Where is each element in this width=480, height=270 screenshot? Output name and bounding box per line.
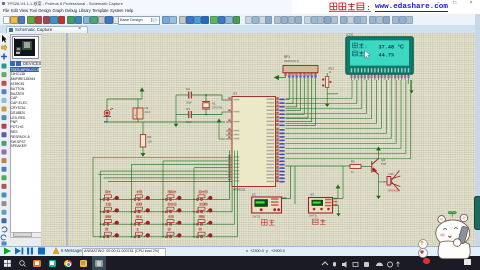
button keypad row1 col3 bbox=[166, 195, 182, 201]
button keypad row3 col4 bbox=[197, 220, 213, 226]
wire net to U2 data bbox=[294, 166, 296, 204]
button keypad row2 col3 bbox=[166, 207, 182, 213]
taskbar bbox=[0, 256, 480, 270]
svg-text:U3: U3 bbox=[310, 193, 314, 197]
label humidity U3 bbox=[313, 219, 319, 225]
svg-text:10k: 10k bbox=[148, 140, 153, 144]
ground under R1 bbox=[141, 150, 145, 156]
wire RV1 top bbox=[326, 73, 328, 77]
svg-text:DHT11: DHT11 bbox=[309, 214, 318, 218]
ground Q4 emitter bbox=[377, 193, 380, 199]
svg-text:22uF: 22uF bbox=[145, 110, 151, 114]
button keypad row1 col2 bbox=[134, 195, 150, 201]
wire P3 net to R2 bbox=[286, 165, 351, 167]
LCD text line1 temperature bbox=[353, 43, 358, 48]
svg-text:PNP: PNP bbox=[381, 162, 387, 166]
button keypad row3 col1 bbox=[103, 220, 119, 226]
mouse cursor bbox=[365, 51, 370, 59]
wire bus RP1 to P0 bbox=[288, 78, 290, 100]
schematic canvas bbox=[41, 33, 475, 246]
MCU U1 AT89C51 bbox=[226, 92, 285, 192]
button keypad row4 col2 bbox=[134, 232, 150, 238]
power arrow U3 bbox=[336, 185, 340, 191]
button keypad row4 col3 bbox=[166, 232, 182, 238]
wire RV1 stub bbox=[327, 93, 338, 95]
svg-text:°C: °C bbox=[398, 44, 404, 50]
teal pill overlay bbox=[474, 196, 480, 230]
svg-text:SPEAKER: SPEAKER bbox=[388, 190, 400, 193]
button keypad row2 col2 bbox=[134, 207, 150, 213]
wire xtal rail1 bbox=[176, 94, 188, 96]
wire bbox=[106, 99, 108, 110]
overview window bbox=[10, 34, 42, 62]
svg-text:R1: R1 bbox=[148, 135, 152, 139]
ground LCD backlight bbox=[411, 80, 413, 88]
svg-text:30pF: 30pF bbox=[186, 101, 192, 105]
button keypad row1 col1 bbox=[103, 195, 119, 201]
panel h scrollbar bbox=[10, 232, 42, 239]
svg-text:C3: C3 bbox=[186, 107, 190, 111]
svg-text:1k: 1k bbox=[351, 170, 354, 174]
wire xtal rail2 bbox=[176, 114, 188, 116]
ground RV1 bbox=[325, 101, 328, 107]
button keypad row1 col4 bbox=[197, 195, 213, 201]
button keypad row3 col3 bbox=[166, 220, 182, 226]
svg-text:C2: C2 bbox=[186, 87, 190, 91]
wire keypad column drops bbox=[92, 158, 94, 237]
left panel bbox=[8, 33, 41, 246]
sheet border line bbox=[66, 33, 68, 246]
svg-text:RV1: RV1 bbox=[329, 67, 335, 71]
menu bar bbox=[0, 7, 480, 14]
svg-text:U1: U1 bbox=[233, 92, 237, 96]
button keypad row3 col2 bbox=[134, 220, 150, 226]
svg-text:RP1: RP1 bbox=[284, 55, 290, 59]
wire bbox=[192, 94, 223, 96]
wire RV1 bottom to ground bbox=[326, 88, 328, 102]
wire U3 data bbox=[342, 166, 344, 199]
keypad row wires bbox=[101, 198, 230, 200]
toolbar row bbox=[0, 14, 480, 26]
MCU right pin callout labels bbox=[276, 97, 284, 182]
wire bus LCD staircase bbox=[286, 80, 411, 159]
tab bar bbox=[0, 25, 480, 35]
speaker LS1 bbox=[387, 171, 400, 192]
crystal X1 bbox=[205, 95, 207, 102]
wire VCC rail reset bbox=[107, 98, 142, 100]
sensor U3 DHT11 humidity bbox=[309, 193, 338, 214]
svg-text:+: + bbox=[384, 179, 386, 183]
svg-text:30pF: 30pF bbox=[186, 120, 192, 124]
svg-text:X1: X1 bbox=[212, 102, 216, 106]
LCD display AMPIRE128X64 bbox=[346, 33, 414, 75]
wire Q4 emitter bbox=[378, 175, 380, 182]
keypad junction dots bbox=[100, 199, 195, 238]
wire bbox=[192, 114, 223, 116]
resistor pack RP1 RESPACK-8 bbox=[283, 55, 318, 78]
wire U2 data bbox=[282, 198, 291, 200]
capacitor C2 bbox=[189, 92, 192, 99]
wire U3 gnd bbox=[333, 205, 339, 207]
wire bbox=[106, 117, 108, 123]
button keypad row4 col1 bbox=[103, 232, 119, 238]
button keypad row4 col4 bbox=[197, 232, 213, 238]
svg-text:44.7%: 44.7% bbox=[379, 53, 395, 59]
potentiometer RV1 bbox=[322, 67, 334, 88]
wire bbox=[205, 109, 207, 115]
white banner top right bbox=[292, 0, 480, 14]
right window border bbox=[475, 14, 480, 246]
transistor Q4 PNP bbox=[372, 159, 379, 175]
resistor R1 bbox=[142, 122, 144, 135]
float buttons bbox=[418, 239, 428, 249]
wire R2 to Q4 base bbox=[361, 166, 372, 168]
wire U3 vdd bbox=[333, 198, 344, 200]
capacitor C3 bbox=[189, 111, 192, 118]
wire cap ground rail bbox=[175, 95, 177, 121]
wire XTAL1 to MCU bbox=[221, 95, 223, 100]
ground crystal caps bbox=[174, 121, 177, 127]
button RESET bbox=[104, 109, 114, 117]
ground U3 bbox=[337, 211, 340, 216]
resistor R2 bbox=[350, 165, 361, 169]
sensor U2 DHT11 temperature bbox=[252, 193, 287, 214]
combo box "Base Design" bbox=[118, 16, 160, 25]
svg-text:LS1: LS1 bbox=[389, 172, 395, 176]
LCD text line2 humidity bbox=[353, 51, 358, 56]
keypad right bundle bbox=[229, 151, 231, 200]
svg-text:37.48: 37.48 bbox=[379, 45, 395, 51]
wire bus MCU P1 to keypad bbox=[93, 158, 226, 182]
devices list bbox=[10, 67, 42, 234]
svg-text:DHT11: DHT11 bbox=[253, 215, 262, 219]
svg-text:Q4: Q4 bbox=[381, 158, 385, 162]
svg-text:U2: U2 bbox=[252, 193, 256, 197]
svg-text:R2: R2 bbox=[351, 160, 355, 164]
svg-text:C1: C1 bbox=[145, 106, 149, 110]
left vertical toolbar bbox=[0, 33, 9, 246]
svg-text:LCD1: LCD1 bbox=[346, 33, 354, 37]
wire LCD vss bbox=[407, 80, 409, 84]
title bar bbox=[0, 0, 480, 7]
svg-text:CRYSTAL: CRYSTAL bbox=[212, 107, 223, 110]
power arrow Q4 bbox=[377, 147, 381, 155]
power arrow RP1 common bbox=[275, 75, 286, 79]
wire speaker to ground bbox=[378, 182, 380, 193]
power VCC arrow reset bbox=[140, 88, 144, 99]
svg-text:RESPACK-8: RESPACK-8 bbox=[284, 59, 299, 63]
bear mascot bbox=[421, 210, 480, 268]
power VCC arrow EA pin bbox=[217, 119, 221, 127]
wire bbox=[137, 119, 139, 122]
wire Q4 collector VCC bbox=[378, 155, 380, 159]
label temperature U2 bbox=[262, 220, 268, 226]
LCD pin header strip bbox=[351, 68, 410, 80]
wire XTAL2 to MCU bbox=[221, 112, 223, 115]
button keypad row2 col4 bbox=[197, 207, 213, 213]
capacitor C1 bbox=[137, 99, 139, 108]
wire bbox=[142, 147, 144, 150]
devices header bbox=[10, 61, 15, 66]
svg-text:1k: 1k bbox=[329, 71, 332, 74]
status bar bbox=[0, 246, 480, 257]
button keypad row2 col1 bbox=[103, 207, 119, 213]
wire net to U2 data bbox=[290, 166, 292, 199]
